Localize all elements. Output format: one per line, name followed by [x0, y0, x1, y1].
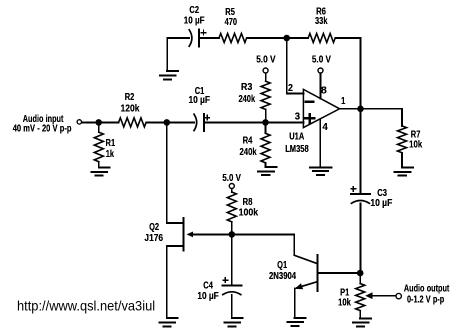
svg-text:R1: R1 — [106, 138, 116, 149]
svg-text:µF: µF — [209, 291, 219, 302]
svg-text:240k: 240k — [240, 147, 257, 158]
svg-text:V: V — [426, 295, 431, 306]
svg-text:R2: R2 — [125, 92, 135, 103]
svg-text:5.0: 5.0 — [222, 173, 233, 184]
svg-text:40: 40 — [13, 124, 22, 135]
svg-text:V: V — [270, 54, 276, 65]
svg-text:10: 10 — [189, 95, 199, 106]
svg-text:4: 4 — [322, 122, 328, 133]
svg-text:10k: 10k — [409, 139, 422, 150]
svg-text:J176: J176 — [144, 233, 163, 244]
svg-text:1k: 1k — [106, 149, 115, 160]
svg-text:10: 10 — [197, 291, 206, 302]
svg-text:20: 20 — [42, 124, 51, 135]
svg-text:3: 3 — [295, 111, 301, 122]
svg-text:2: 2 — [288, 83, 293, 94]
svg-text:8: 8 — [321, 85, 327, 96]
svg-text:V: V — [236, 173, 241, 184]
svg-text:µF: µF — [195, 15, 205, 26]
svg-text:output: output — [427, 283, 450, 294]
svg-text:5.0: 5.0 — [256, 54, 268, 65]
svg-text:p-p: p-p — [60, 124, 72, 135]
svg-text:p-p: p-p — [433, 295, 444, 306]
svg-text:µF: µF — [200, 95, 210, 106]
svg-text:120k: 120k — [121, 104, 140, 115]
svg-text:240k: 240k — [238, 94, 255, 105]
svg-text:10: 10 — [184, 15, 193, 26]
svg-text:R4: R4 — [243, 136, 253, 147]
svg-text:V: V — [325, 54, 330, 65]
svg-text:U1A: U1A — [289, 131, 304, 142]
svg-text:0-1.2: 0-1.2 — [407, 295, 424, 306]
svg-text:1: 1 — [341, 96, 345, 107]
svg-text:mV: mV — [23, 124, 35, 135]
svg-text:10k: 10k — [338, 298, 351, 309]
svg-text:V: V — [53, 124, 58, 135]
svg-text:µF: µF — [382, 198, 392, 209]
svg-text:100k: 100k — [239, 207, 259, 218]
svg-text:LM358: LM358 — [285, 144, 309, 155]
svg-text:2N3904: 2N3904 — [269, 271, 296, 282]
svg-text:470: 470 — [225, 17, 238, 28]
svg-text:http://www.qsl.net/va3iul: http://www.qsl.net/va3iul — [17, 299, 155, 314]
svg-text:Audio: Audio — [404, 283, 425, 294]
svg-text:-: - — [37, 124, 40, 135]
svg-text:33k: 33k — [315, 16, 328, 27]
svg-text:Q1: Q1 — [277, 260, 287, 271]
svg-text:5.0: 5.0 — [312, 54, 324, 65]
svg-text:10: 10 — [370, 198, 380, 209]
svg-text:Q2: Q2 — [149, 222, 159, 233]
svg-text:R3: R3 — [241, 82, 253, 93]
